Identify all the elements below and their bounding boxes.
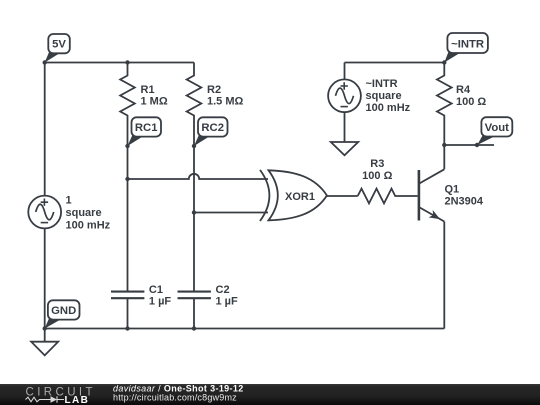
svg-text:square: square — [366, 90, 402, 102]
svg-text:http://circuitlab.com/c8gw9mz: http://circuitlab.com/c8gw9mz — [113, 392, 237, 402]
svg-text:100 Ω: 100 Ω — [362, 170, 392, 182]
capacitor C1 — [111, 292, 144, 299]
svg-text:R1: R1 — [141, 84, 155, 96]
svg-text:R2: R2 — [207, 84, 221, 96]
node C1 bottom junction — [125, 326, 129, 330]
svg-text:~INTR: ~INTR — [451, 38, 484, 50]
logo circuit symbol — [26, 396, 65, 402]
label R1 value — [141, 84, 168, 108]
svg-text:100 Ω: 100 Ω — [456, 96, 486, 108]
node RC2 flag — [194, 117, 228, 146]
label C1 value — [149, 284, 172, 308]
wire V2 top stub — [344, 63, 346, 80]
svg-text:1: 1 — [66, 195, 72, 207]
wire C2 bottom — [193, 298, 195, 328]
wire XOR output to R3 — [327, 195, 358, 197]
resistor R2 — [187, 63, 202, 292]
node top rail / R1 junction — [125, 60, 129, 64]
svg-text:Q1: Q1 — [445, 184, 460, 196]
wire XOR input 1 (with hop over R2 column) — [128, 174, 269, 179]
svg-text:1 MΩ: 1 MΩ — [141, 96, 168, 108]
label R3 value — [362, 158, 392, 182]
wire V2 top to ~INTR node — [345, 62, 445, 64]
svg-text:XOR1: XOR1 — [285, 191, 315, 203]
node RC1 junction — [125, 144, 129, 148]
resistor R3 — [358, 189, 418, 204]
wire left rail upper (5V node to V1 top) — [44, 63, 46, 196]
svg-text:LAB: LAB — [65, 395, 90, 405]
node Vout pointer tip — [475, 143, 479, 147]
wire top rail 5V to R2 — [45, 62, 194, 64]
node 5V flag — [45, 34, 70, 63]
capacitor C2 — [178, 292, 211, 299]
svg-text:100 mHz: 100 mHz — [366, 102, 411, 114]
node ~INTR flag — [444, 33, 488, 63]
node XOR input 1 junction — [125, 177, 129, 181]
node RC1 flag — [128, 117, 162, 146]
node Vout flag — [477, 117, 512, 145]
wire emitter down to rail — [443, 222, 445, 329]
label V1 value — [66, 195, 111, 232]
node label flags — [45, 33, 513, 329]
node ~INTR junction — [442, 60, 446, 64]
svg-text:R3: R3 — [370, 158, 384, 170]
label R2 value — [207, 84, 244, 108]
node Vout junction — [442, 143, 446, 147]
label V2 value — [366, 78, 411, 114]
ground (under V2) — [331, 142, 358, 155]
svg-text:~INTR: ~INTR — [366, 78, 398, 90]
wire bottom rail — [45, 328, 445, 330]
svg-text:C1: C1 — [149, 284, 163, 296]
node GND flag — [45, 300, 80, 328]
svg-text:2N3904: 2N3904 — [445, 196, 484, 208]
XOR gate XOR1 — [260, 170, 327, 221]
label Q1 value — [445, 184, 484, 208]
label R4 value — [456, 84, 486, 108]
svg-text:1 µF: 1 µF — [216, 296, 239, 308]
wire Vout — [444, 144, 494, 146]
svg-text:5V: 5V — [52, 39, 66, 51]
svg-text:square: square — [66, 207, 102, 219]
wire XOR input 2 — [194, 212, 268, 214]
voltage source V2 — [328, 79, 361, 112]
wire V2 bottom stub — [344, 112, 346, 142]
svg-text:Vout: Vout — [485, 122, 509, 134]
wire GND stub — [44, 329, 46, 342]
ground (left) — [31, 342, 58, 356]
resistor R4 — [437, 63, 452, 170]
transistor Q1 — [419, 169, 444, 221]
resistor R1 — [120, 63, 135, 292]
voltage source V1 — [28, 196, 61, 229]
svg-text:R4: R4 — [456, 84, 471, 96]
node 5V junction — [43, 60, 47, 64]
node RC2 junction — [192, 144, 196, 148]
node C2 bottom junction — [192, 326, 196, 330]
wire left rail lower (V1 bottom to GND node) — [44, 228, 46, 328]
svg-text:GND: GND — [51, 305, 76, 317]
svg-text:RC1: RC1 — [135, 122, 158, 134]
node XOR input 2 junction — [192, 210, 196, 214]
svg-text:1 µF: 1 µF — [149, 296, 172, 308]
wire C1 bottom — [127, 298, 129, 328]
footer bar — [0, 384, 540, 405]
svg-text:1.5 MΩ: 1.5 MΩ — [207, 96, 244, 108]
label C2 value — [216, 284, 239, 308]
svg-text:100 mHz: 100 mHz — [66, 220, 111, 232]
svg-text:C2: C2 — [216, 284, 230, 296]
svg-text:RC2: RC2 — [201, 122, 224, 134]
node GND junction — [43, 326, 47, 330]
